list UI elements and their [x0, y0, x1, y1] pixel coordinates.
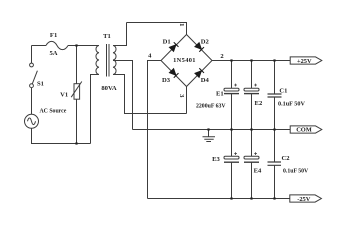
svg-text:4: 4 [148, 52, 152, 59]
wire switch to AC source [31, 88, 33, 115]
terminal +25V [290, 57, 322, 64]
capacitor C2 plates [268, 162, 282, 165]
svg-text:0.1uF 50V: 0.1uF 50V [283, 169, 309, 175]
junction nodes bottom rail [230, 197, 232, 199]
wire primary bottom lead [91, 75, 100, 144]
svg-text:AC Source: AC Source [40, 109, 67, 115]
svg-text:COM: COM [296, 127, 312, 134]
capacitor E4 polarity [254, 152, 257, 155]
svg-text:0.1uF 50V: 0.1uF 50V [278, 101, 305, 108]
diode D3 [169, 68, 178, 77]
svg-text:E4: E4 [254, 168, 262, 175]
svg-text:E3: E3 [212, 156, 220, 163]
svg-text:F1: F1 [50, 32, 57, 39]
capacitor C1 wires [274, 61, 276, 130]
svg-text:D3: D3 [162, 77, 171, 84]
capacitor C1 plates [268, 94, 282, 97]
wire bottom rail to -25V [148, 198, 291, 200]
svg-text:E2: E2 [255, 100, 263, 107]
svg-text:S1: S1 [37, 81, 44, 88]
wire bridge pin 3 down [186, 87, 188, 114]
svg-text:+25V: +25V [297, 58, 312, 65]
svg-text:C2: C2 [281, 155, 290, 162]
capacitor E2 plates [244, 88, 259, 91]
svg-text:3: 3 [178, 94, 185, 98]
diode D1 [169, 42, 178, 51]
svg-text:80VA: 80VA [101, 85, 117, 92]
capacitor E3 polarity [234, 152, 237, 155]
varistor V1 vertical wires [76, 46, 78, 144]
wire bridge pin 4 to bottom rail [148, 61, 162, 199]
capacitor E1 polarity [234, 84, 237, 87]
ground [208, 130, 210, 137]
svg-text:C1: C1 [279, 88, 287, 95]
varistor V1 body [74, 84, 80, 100]
capacitor E2 polarity [254, 84, 257, 87]
AC source [25, 114, 39, 128]
diode D4 [195, 68, 204, 77]
capacitor C2 wires [274, 130, 276, 199]
junction nodes COM rail [230, 128, 232, 130]
diode D2 [195, 42, 204, 51]
wire left vertical to switch [31, 46, 33, 64]
svg-text:D2: D2 [201, 38, 210, 45]
svg-text:1N5401: 1N5401 [173, 57, 196, 64]
wire secondary top lead up to top rail [113, 23, 127, 46]
terminal COM [290, 126, 322, 133]
svg-text:5A: 5A [49, 50, 57, 57]
svg-text:D4: D4 [201, 77, 210, 84]
transformer core [107, 44, 110, 77]
fuse F1 [46, 41, 68, 49]
junction node fuse/V1 [75, 44, 77, 46]
capacitor E3 plates [224, 156, 239, 159]
wire top rail to bridge pin 1 [127, 23, 187, 35]
wire fuse to junction to transformer primary top [68, 45, 99, 47]
switch S1 [30, 63, 34, 67]
svg-text:2200uF 63V: 2200uF 63V [196, 104, 226, 110]
capacitor E2 wires [251, 61, 253, 130]
wire secondary bottom lead [113, 75, 187, 114]
wire bridge pin 2 to +25V rail [212, 60, 290, 62]
transformer T1 secondary coil [113, 46, 116, 75]
transformer T1 primary coil [96, 46, 99, 75]
wire secondary center tap [113, 61, 133, 130]
junction nodes +rail [230, 59, 232, 61]
svg-text:D1: D1 [163, 38, 171, 45]
wire COM rail [133, 129, 291, 131]
capacitor E4 wires [251, 130, 253, 199]
terminal -25V [290, 195, 322, 202]
wire top-left from left loop to fuse [32, 45, 47, 47]
svg-text:T1: T1 [103, 33, 111, 40]
svg-text:V1: V1 [60, 91, 68, 98]
svg-text:1: 1 [178, 23, 185, 26]
svg-text:E1: E1 [216, 91, 224, 98]
capacitor E4 plates [244, 156, 259, 159]
wire AC source to bottom of loop [32, 128, 91, 143]
bridge diamond [161, 35, 212, 87]
capacitor E1 wires [231, 61, 233, 130]
svg-text:-25V: -25V [297, 196, 311, 203]
svg-text:2: 2 [220, 53, 224, 60]
capacitor E1 plates [224, 88, 239, 91]
junction node ground [207, 128, 209, 130]
junction node V1 bottom [75, 142, 77, 144]
capacitor E3 wires [231, 130, 233, 199]
